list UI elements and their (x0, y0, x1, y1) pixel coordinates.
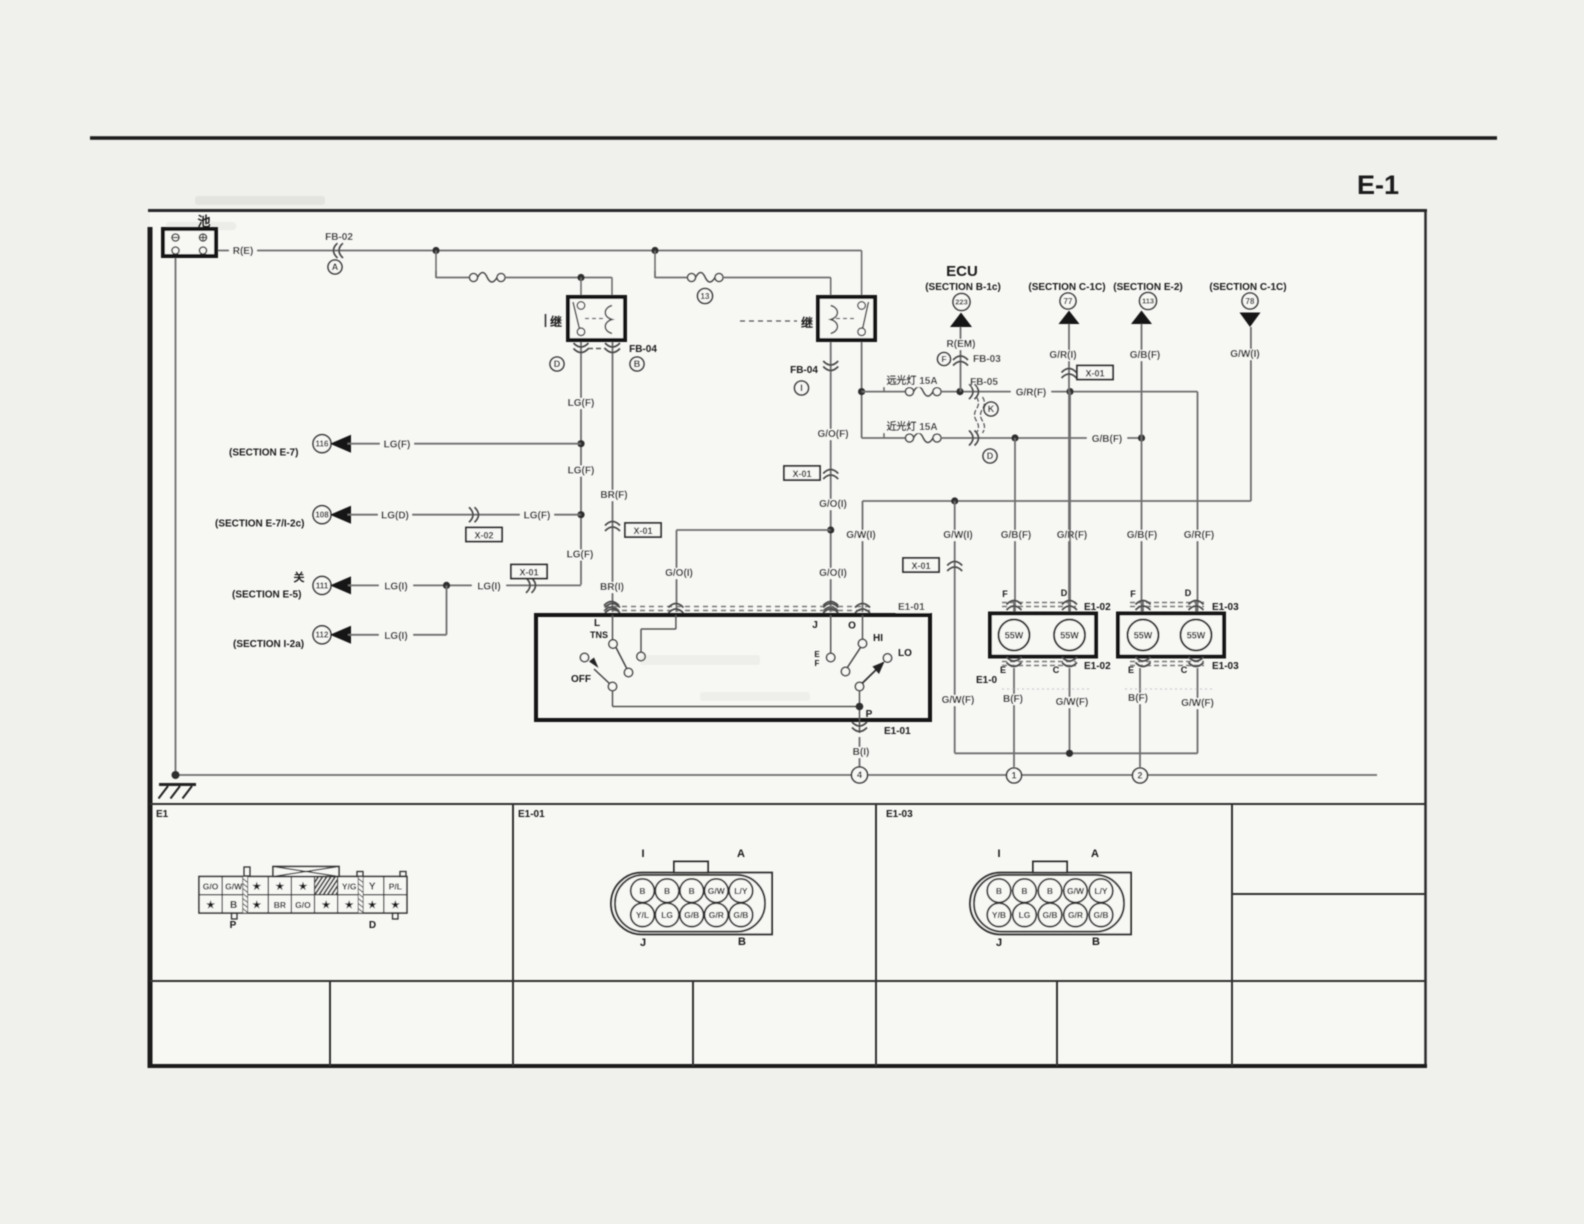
svg-text:G/O(I): G/O(I) (819, 499, 847, 510)
svg-text:G/W(I): G/W(I) (846, 530, 875, 541)
svg-text:113: 113 (1142, 297, 1154, 306)
svg-text:55W: 55W (1134, 630, 1153, 640)
svg-text:G/W(F): G/W(F) (942, 695, 975, 706)
svg-text:O: O (848, 621, 856, 632)
svg-text:F: F (1002, 589, 1008, 599)
svg-text:55W: 55W (1005, 630, 1024, 640)
svg-text:55W: 55W (1060, 630, 1079, 640)
svg-text:G/R(F): G/R(F) (1057, 530, 1088, 541)
svg-text:L/Y: L/Y (734, 886, 748, 896)
svg-text:B: B (664, 886, 670, 896)
svg-text:G/B(F): G/B(F) (1127, 530, 1158, 541)
svg-text:G/O: G/O (295, 900, 311, 910)
svg-text:G/R: G/R (709, 910, 724, 920)
svg-text:★: ★ (206, 900, 215, 911)
svg-text:E: E (814, 650, 820, 659)
svg-text:L: L (594, 618, 600, 629)
svg-text:LO: LO (898, 648, 912, 659)
svg-text:BR(F): BR(F) (600, 490, 627, 501)
svg-text:4: 4 (857, 770, 862, 780)
svg-text:★: ★ (275, 882, 284, 893)
svg-text:P: P (230, 920, 237, 931)
svg-text:D: D (1185, 588, 1192, 598)
svg-text:G/B(F): G/B(F) (1092, 434, 1123, 445)
svg-text:E1-03: E1-03 (886, 809, 913, 820)
svg-text:LG: LG (661, 910, 673, 920)
svg-text:BR: BR (274, 900, 286, 910)
svg-text:Y/L: Y/L (636, 910, 649, 920)
svg-text:E1: E1 (156, 809, 169, 820)
svg-text:LG(F): LG(F) (568, 398, 595, 409)
svg-text:B: B (738, 936, 746, 948)
svg-text:G/R(I): G/R(I) (1049, 350, 1076, 361)
svg-text:★: ★ (345, 900, 354, 911)
svg-text:I: I (997, 848, 1000, 860)
svg-text:E1-01: E1-01 (898, 602, 925, 613)
svg-text:★: ★ (252, 882, 261, 893)
svg-text:C: C (1181, 665, 1188, 675)
svg-text:108: 108 (315, 511, 329, 520)
svg-text:F: F (941, 354, 946, 364)
svg-text:(SECTION I-2a): (SECTION I-2a) (233, 639, 304, 650)
svg-text:X-02: X-02 (474, 530, 493, 540)
svg-text:E1-0: E1-0 (976, 675, 998, 686)
svg-text:F: F (1130, 589, 1136, 599)
svg-text:B: B (689, 886, 695, 896)
svg-text:Y/B: Y/B (992, 910, 1006, 920)
svg-text:FB-03: FB-03 (973, 354, 1001, 365)
svg-text:LG(I): LG(I) (384, 581, 407, 592)
svg-text:(SECTION E-2): (SECTION E-2) (1113, 282, 1182, 293)
svg-text:★: ★ (368, 900, 377, 911)
svg-text:G/W(I): G/W(I) (1230, 349, 1259, 360)
svg-text:B: B (1021, 886, 1027, 896)
svg-text:G/B: G/B (1042, 910, 1057, 920)
svg-text:★: ★ (322, 900, 331, 911)
svg-text:(SECTION C-1C): (SECTION C-1C) (1209, 282, 1286, 293)
svg-text:G/W: G/W (708, 886, 726, 896)
svg-text:P/L: P/L (389, 882, 402, 892)
svg-text:E1-02: E1-02 (1084, 661, 1111, 672)
svg-text:E-1: E-1 (1357, 170, 1399, 200)
svg-text:13: 13 (701, 292, 710, 301)
svg-text:LG(I): LG(I) (477, 581, 500, 592)
svg-text:(SECTION E-7/I-2c): (SECTION E-7/I-2c) (215, 519, 304, 530)
svg-text:A: A (332, 262, 339, 272)
svg-text:B: B (1092, 936, 1100, 948)
svg-text:D: D (369, 920, 376, 931)
svg-text:TNS: TNS (590, 630, 608, 640)
svg-text:LG(F): LG(F) (567, 550, 594, 561)
svg-text:LG(F): LG(F) (568, 466, 595, 477)
svg-text:远光灯 15A: 远光灯 15A (886, 374, 937, 387)
svg-text:G/B: G/B (733, 910, 748, 920)
svg-text:77: 77 (1064, 297, 1073, 306)
svg-text:关: 关 (294, 570, 305, 584)
svg-text:X-01: X-01 (633, 526, 652, 536)
svg-text:G/W: G/W (1067, 886, 1085, 896)
svg-text:G/W: G/W (225, 882, 243, 892)
svg-text:G/W(F): G/W(F) (1056, 697, 1089, 708)
svg-text:(SECTION E-7): (SECTION E-7) (229, 448, 298, 459)
svg-text:G/O(I): G/O(I) (819, 568, 847, 579)
svg-text:55W: 55W (1187, 630, 1206, 640)
svg-text:G/B(F): G/B(F) (1001, 530, 1032, 541)
svg-text:D: D (987, 451, 994, 461)
svg-text:B: B (996, 886, 1002, 896)
svg-text:E: E (1128, 665, 1134, 675)
svg-text:★: ★ (252, 900, 261, 911)
svg-text:116: 116 (316, 440, 329, 449)
svg-text:D: D (554, 359, 561, 369)
svg-text:112: 112 (316, 631, 329, 640)
svg-text:(SECTION B-1c): (SECTION B-1c) (925, 282, 1001, 293)
svg-text:1: 1 (1011, 771, 1016, 781)
svg-text:继: 继 (801, 315, 813, 330)
svg-text:G/B: G/B (684, 910, 699, 920)
svg-text:G/R(F): G/R(F) (1184, 530, 1215, 541)
svg-text:B: B (634, 359, 641, 369)
svg-text:近光灯 15A: 近光灯 15A (886, 420, 937, 433)
svg-text:D: D (1061, 588, 1068, 598)
svg-text:LG: LG (1019, 910, 1031, 920)
svg-text:Y: Y (369, 882, 376, 893)
svg-text:G/R: G/R (1068, 910, 1083, 920)
svg-text:K: K (988, 404, 995, 414)
svg-text:E1-02: E1-02 (1084, 602, 1111, 613)
svg-text:FB-04: FB-04 (790, 365, 818, 376)
svg-text:OFF: OFF (571, 674, 591, 685)
svg-text:78: 78 (1246, 297, 1255, 306)
svg-text:G/W(I): G/W(I) (943, 530, 972, 541)
svg-text:J: J (996, 937, 1002, 949)
svg-text:★: ★ (298, 882, 307, 893)
svg-text:FB-05: FB-05 (970, 377, 998, 388)
svg-text:LG(F): LG(F) (384, 440, 411, 451)
svg-text:G/B(F): G/B(F) (1130, 350, 1161, 361)
svg-text:E: E (1000, 665, 1006, 675)
svg-text:LG(F): LG(F) (524, 511, 551, 522)
svg-text:HI: HI (873, 633, 883, 644)
svg-text:B(F): B(F) (1003, 694, 1023, 705)
svg-text:G/W(F): G/W(F) (1181, 698, 1214, 709)
svg-text:G/O(I): G/O(I) (665, 568, 693, 579)
svg-text:C: C (1053, 665, 1060, 675)
svg-text:G/B: G/B (1093, 910, 1108, 920)
svg-text:FB-04: FB-04 (629, 344, 657, 355)
svg-text:B(F): B(F) (1128, 693, 1148, 704)
svg-text:A: A (737, 848, 745, 860)
svg-text:B(I): B(I) (853, 747, 870, 758)
svg-text:A: A (1091, 848, 1099, 860)
svg-text:E1-01: E1-01 (518, 809, 545, 820)
svg-text:FB-02: FB-02 (325, 232, 353, 243)
svg-text:I: I (641, 848, 644, 860)
svg-text:B: B (1047, 886, 1053, 896)
svg-text:E1-03: E1-03 (1212, 661, 1239, 672)
svg-text:G/O(F): G/O(F) (817, 429, 848, 440)
svg-text:X-01: X-01 (1085, 368, 1104, 378)
svg-text:F: F (815, 659, 820, 668)
svg-text:Y/G: Y/G (342, 882, 357, 892)
svg-text:E1-01: E1-01 (884, 726, 911, 737)
svg-text:E1-03: E1-03 (1212, 602, 1239, 613)
svg-text:X-01: X-01 (792, 469, 811, 479)
svg-text:继: 继 (550, 314, 562, 329)
svg-text:J: J (812, 620, 818, 631)
svg-text:LG(I): LG(I) (384, 631, 407, 642)
svg-text:池: 池 (197, 214, 210, 229)
svg-text:2: 2 (1137, 771, 1142, 781)
svg-text:R(E): R(E) (233, 246, 254, 257)
svg-text:I: I (800, 383, 803, 393)
svg-text:R(EM): R(EM) (947, 339, 976, 350)
svg-text:BR(I): BR(I) (600, 582, 624, 593)
svg-text:223: 223 (955, 298, 968, 307)
svg-text:★: ★ (391, 900, 400, 911)
svg-text:B: B (639, 886, 645, 896)
svg-text:B: B (230, 900, 237, 911)
svg-text:J: J (640, 937, 646, 949)
svg-text:X-01: X-01 (911, 561, 930, 571)
svg-text:(SECTION C-1C): (SECTION C-1C) (1028, 282, 1105, 293)
svg-text:G/R(F): G/R(F) (1016, 388, 1047, 399)
svg-text:(SECTION E-5): (SECTION E-5) (232, 589, 301, 600)
svg-text:P: P (866, 709, 873, 720)
svg-text:G/O: G/O (203, 882, 219, 892)
svg-text:LG(D): LG(D) (381, 511, 409, 522)
svg-text:L/Y: L/Y (1094, 886, 1108, 896)
svg-text:X-01: X-01 (519, 567, 538, 577)
svg-text:111: 111 (316, 581, 329, 590)
svg-text:ECU: ECU (946, 263, 978, 280)
